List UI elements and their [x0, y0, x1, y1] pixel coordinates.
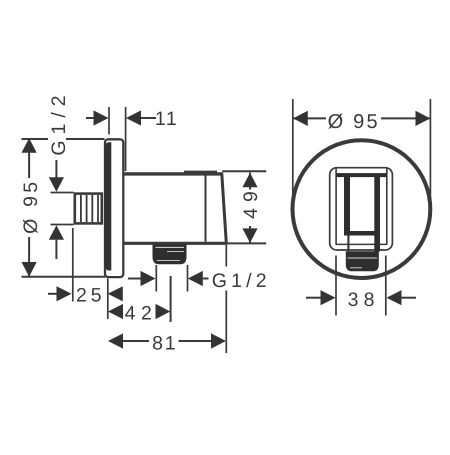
label 11 — [155, 108, 178, 130]
bracket top bar — [336, 173, 387, 177]
svg-text:G1/2: G1/2 — [48, 89, 70, 155]
ext line 49 top — [222, 170, 266, 172]
escutcheon circle — [293, 140, 431, 278]
dim 81 tail left — [123, 340, 149, 342]
svg-text:42: 42 — [125, 303, 158, 325]
arrow 49 up — [242, 173, 257, 188]
arrow G1/2 up — [49, 225, 64, 239]
bracket inner wall left — [335, 168, 337, 244]
svg-text:Ø 95: Ø 95 — [20, 179, 42, 234]
bracket inner wall right — [386, 168, 388, 244]
svg-text:81: 81 — [152, 332, 177, 354]
arrow 25 left-pointing — [108, 286, 123, 301]
ext line 25/42 (flange back) — [107, 279, 109, 320]
label 42 — [125, 303, 158, 325]
ext line flange bottom (Ø95 bottom) — [22, 276, 106, 278]
arrow Ø95 left-pointing — [293, 111, 308, 126]
dim G1/2 outlet tail right — [203, 278, 209, 280]
ext line 38 right — [385, 256, 387, 316]
label Ø95 left rotated — [20, 178, 42, 237]
bracket outer rounded square — [330, 168, 393, 250]
body bottom edge — [124, 242, 226, 245]
body joint line — [205, 175, 207, 242]
outlet nut left view — [153, 245, 187, 265]
svg-text:38: 38 — [348, 289, 380, 311]
ext line 11 right — [125, 107, 127, 171]
bracket inner bottom line — [336, 243, 388, 245]
svg-text:49: 49 — [240, 185, 262, 219]
arrow 11 left — [94, 110, 109, 125]
svg-text:Ø 95: Ø 95 — [328, 111, 380, 133]
bracket crossbar — [344, 231, 377, 236]
ext line 49 bottom — [226, 242, 266, 244]
dim 11 tail right — [141, 117, 156, 119]
body top edge — [124, 172, 222, 175]
svg-text:G1/2: G1/2 — [212, 270, 271, 292]
arrow G1/2 outlet left-pointing — [188, 271, 203, 286]
arrow 11 right — [126, 110, 141, 125]
label 38 — [348, 289, 380, 311]
ext line G1/2 outlet right — [187, 265, 189, 292]
arrow Ø95 right-pointing — [416, 111, 431, 126]
outlet nut front view — [346, 251, 379, 271]
arrow 42 right-pointing — [156, 304, 171, 319]
svg-text:25: 25 — [76, 285, 106, 307]
arrow G1/2 outlet right-pointing — [141, 271, 156, 286]
ext line flange top (Ø95 top) — [22, 138, 105, 140]
ext line G1/2 outlet left — [155, 265, 157, 292]
ext line 11 left — [108, 107, 110, 135]
ext line thread bottom — [51, 224, 74, 226]
bracket left arm — [344, 175, 350, 236]
stub left edge — [347, 236, 349, 252]
label G1/2 left rotated — [48, 89, 70, 160]
label 25 — [76, 285, 106, 307]
arrow 38 left-pointing — [387, 290, 402, 305]
arrow 38 right-pointing — [321, 290, 336, 305]
dim line Ø95 top — [294, 117, 431, 119]
ext line thread top — [51, 192, 74, 194]
svg-text:11: 11 — [155, 108, 178, 130]
ext line Ø95 top right — [429, 99, 431, 209]
arrow Ø95 up — [22, 138, 37, 153]
dim line 49 — [249, 173, 251, 243]
dim G1/2 outlet tail left — [128, 278, 142, 280]
dim line Ø95 left — [28, 139, 30, 277]
body right slanted edge — [222, 173, 227, 244]
ext line 38 left — [335, 256, 337, 316]
dim 81 tail right — [179, 340, 212, 342]
body top lip — [184, 171, 217, 173]
dim 38 tail right — [402, 297, 417, 299]
arrow 42 left-pointing — [108, 304, 123, 319]
dim 25 tail left — [48, 293, 58, 295]
label 49 rotated — [240, 185, 262, 226]
dim line G1/2 left upper — [55, 157, 57, 180]
arrow 49 down — [242, 228, 257, 243]
arrow Ø95 down — [22, 262, 37, 277]
thread lines — [80, 195, 82, 222]
arrow 81 right-pointing — [211, 333, 226, 348]
bracket right arm — [374, 175, 380, 252]
label 81 — [152, 332, 177, 354]
flange escutcheon outline — [105, 139, 123, 277]
dim line G1/2 left lower — [55, 240, 57, 259]
label G1/2 bottom — [210, 267, 271, 293]
nut highlight lines — [156, 246, 185, 248]
arrow 81 left-pointing — [108, 333, 123, 348]
arrow 25 right-pointing — [57, 286, 72, 301]
arrow G1/2 down — [49, 177, 64, 191]
thread block G1/2 inlet — [75, 194, 102, 224]
nut front highlights — [348, 257, 378, 259]
dim 38 tail left — [306, 297, 322, 299]
ext line 81 right (body tip) — [225, 245, 227, 354]
flange dome thick left edge — [104, 142, 111, 270]
ext line Ø95 top left — [292, 99, 294, 209]
label Ø95 top — [326, 107, 381, 133]
dim 11 tail left — [86, 117, 95, 119]
centerline below nut — [170, 276, 172, 322]
ext line 25 left (thread end) — [72, 228, 74, 302]
